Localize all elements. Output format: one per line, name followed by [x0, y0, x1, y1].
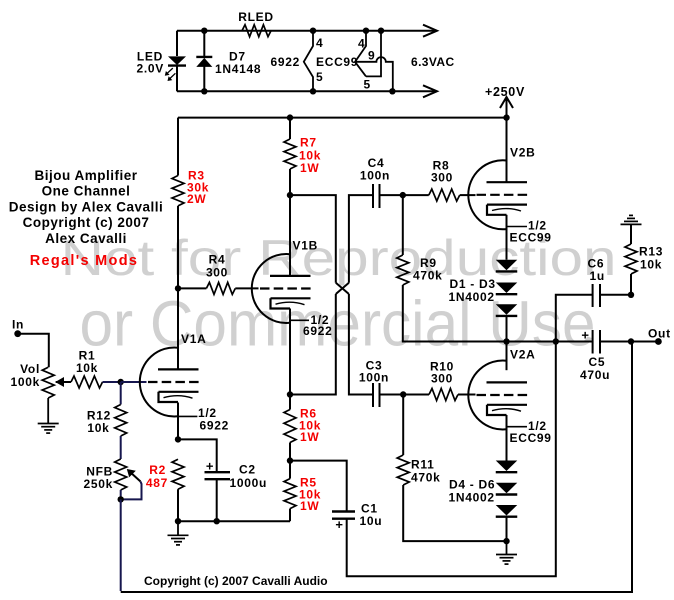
- wire heater bottom rail: [177, 90, 436, 92]
- diode D6: [496, 505, 518, 516]
- wire cathode node to C2: [178, 439, 217, 472]
- wire to Out terminal: [631, 341, 658, 343]
- junction C6/R13 node: [628, 292, 634, 298]
- svg-text:470u: 470u: [580, 368, 610, 382]
- Vol wiper arrow: [56, 381, 71, 383]
- wire R3 top lead: [177, 118, 179, 176]
- LED emission arrows: [167, 68, 173, 73]
- junction 6922 heater bottom: [310, 88, 316, 94]
- wire node A to R4: [178, 287, 206, 289]
- diode D4: [496, 461, 518, 472]
- svg-text:+: +: [335, 517, 343, 532]
- wire R2 bottom lead: [177, 489, 179, 521]
- wire V2B anode lead: [506, 118, 508, 183]
- wire R8 to V2B grid: [460, 194, 476, 196]
- wire R8 left lead: [403, 194, 429, 196]
- resistor R1: [71, 376, 103, 388]
- svg-text:1N4148: 1N4148: [215, 62, 261, 76]
- wire R11 bottom to D6 node: [403, 485, 506, 541]
- ground at output stage: [496, 554, 517, 556]
- junction C3/R10/R11 node: [400, 391, 406, 397]
- power +250V arrow: [500, 97, 513, 108]
- pointer V1A label: [178, 415, 197, 417]
- wire R6 top lead: [289, 395, 291, 410]
- wire C4 to R8 node: [380, 194, 403, 196]
- wire NFB pot bottom lead: [120, 490, 122, 499]
- svg-text:300: 300: [206, 266, 228, 280]
- heater ECC99 U-bottom and pin5 side: [366, 31, 381, 77]
- wire cathode ground bus: [178, 520, 290, 522]
- wire grid node to V1A: [121, 381, 147, 383]
- svg-text:ECC99: ECC99: [510, 431, 552, 445]
- junction ECC99 pin9 bottom: [389, 88, 395, 94]
- svg-text:6922: 6922: [303, 324, 333, 338]
- svg-text:C5: C5: [589, 355, 606, 369]
- svg-text:RLED: RLED: [238, 10, 273, 24]
- wire R4 to V1B grid: [235, 287, 258, 289]
- diode D7: [196, 56, 212, 58]
- svg-text:100k: 100k: [11, 375, 41, 389]
- svg-text:1u: 1u: [590, 269, 605, 283]
- junction D7 top: [201, 28, 207, 34]
- junction output node at D3: [503, 338, 509, 344]
- NFB wiper arrow: [130, 472, 141, 482]
- svg-text:ECC99: ECC99: [316, 55, 358, 69]
- wire cross diagonal B: [336, 283, 349, 294]
- svg-text:V1A: V1A: [181, 332, 206, 346]
- ground at V1A cathode network: [168, 534, 189, 536]
- wire NFB feedback bottom run: [121, 342, 632, 593]
- junction grid node V1A: [118, 379, 124, 385]
- wire R11 top lead: [402, 395, 404, 456]
- triode V2A: [468, 360, 506, 429]
- wire R7 bottom lead: [289, 169, 291, 195]
- svg-text:D1 - D3: D1 - D3: [450, 277, 496, 291]
- resistor R10: [429, 389, 458, 401]
- wire D7 bottom lead: [203, 66, 205, 91]
- junction ground node at D6: [503, 538, 509, 544]
- resistor R7: [284, 139, 296, 169]
- wire V1B anode to cross (top left): [290, 195, 336, 283]
- wire output node rail: [507, 341, 593, 343]
- wire V1B anode lead: [289, 195, 291, 276]
- svg-text:Copyright (c) 2007 Cavalli Aud: Copyright (c) 2007 Cavalli Audio: [144, 574, 328, 588]
- wire B+ rail: [178, 117, 507, 119]
- wire D3 to output node: [506, 316, 508, 342]
- svg-text:Regal's Mods: Regal's Mods: [30, 253, 138, 269]
- node Out terminal: [655, 338, 662, 345]
- wire D6 ground stub: [506, 541, 508, 554]
- junction C5/Out node: [628, 338, 634, 344]
- svg-text:10k: 10k: [640, 258, 662, 272]
- wire C5 right lead: [600, 341, 631, 343]
- capacitor C4: [372, 184, 374, 208]
- svg-text:R11: R11: [411, 458, 434, 472]
- junction ECC99 pin5 top: [378, 28, 384, 34]
- wire R3 bottom to node A: [177, 206, 179, 289]
- svg-text:1N4002: 1N4002: [449, 491, 495, 505]
- node In terminal: [14, 330, 21, 337]
- junction R7 top: [287, 114, 293, 120]
- wire In to Vol pot: [18, 334, 49, 368]
- junction output rail / C6 branch: [553, 338, 559, 344]
- svg-text:1W: 1W: [300, 430, 319, 444]
- svg-text:Alex Cavalli: Alex Cavalli: [45, 231, 127, 246]
- svg-text:100n: 100n: [360, 169, 390, 183]
- wire V1A cathode lead: [177, 403, 179, 440]
- svg-text:R2: R2: [149, 463, 166, 477]
- wire heater top rail: [177, 30, 436, 32]
- wire R1 to grid node: [103, 381, 121, 383]
- svg-text:300: 300: [431, 171, 453, 185]
- junction B+ at V2B anode: [503, 114, 509, 120]
- diode D3: [496, 304, 518, 315]
- svg-text:ECC99: ECC99: [510, 231, 552, 245]
- svg-text:10u: 10u: [360, 514, 383, 528]
- wire C3 to R10 node: [380, 394, 404, 396]
- svg-text:6922: 6922: [271, 55, 301, 69]
- svg-text:One Channel: One Channel: [42, 184, 131, 199]
- resistor R9: [397, 255, 409, 285]
- svg-text:1W: 1W: [300, 161, 319, 175]
- svg-text:6.3VAC: 6.3VAC: [411, 55, 455, 69]
- resistor R12: [115, 405, 127, 437]
- svg-text:5: 5: [364, 78, 371, 92]
- svg-text:Copyright (c) 2007: Copyright (c) 2007: [23, 215, 150, 230]
- resistor R8: [429, 189, 460, 201]
- potentiometer NFB: [115, 459, 127, 490]
- wire cross B down to V1B cathode node: [290, 294, 336, 395]
- pointer V2A label: [507, 426, 528, 428]
- pointer V2B label: [507, 226, 528, 228]
- potentiometer Vol: [42, 367, 54, 398]
- svg-text:R4: R4: [209, 253, 226, 267]
- junction D7 bottom: [201, 88, 207, 94]
- wire C6 right lead: [600, 294, 631, 296]
- wire C4 branch (top right): [349, 195, 372, 283]
- svg-text:2.0V: 2.0V: [137, 62, 165, 76]
- wire R13 bottom lead: [630, 274, 632, 295]
- svg-text:487: 487: [146, 476, 168, 490]
- svg-text:300: 300: [431, 372, 453, 386]
- svg-text:4: 4: [316, 36, 323, 50]
- junction V1A cathode node: [175, 436, 181, 442]
- svg-text:C2: C2: [239, 463, 256, 477]
- diode D5: [496, 483, 518, 494]
- pointer V1B label: [290, 319, 309, 321]
- heater top rail arrow: [423, 25, 437, 37]
- svg-text:V2A: V2A: [510, 348, 535, 362]
- heater bottom rail arrow: [423, 85, 437, 97]
- junction 6922 heater top: [310, 28, 316, 34]
- wire cross A down to C3: [349, 294, 372, 395]
- resistor R4: [206, 282, 235, 294]
- svg-text:R7: R7: [300, 136, 317, 150]
- ground at Vol: [38, 423, 59, 425]
- diode D2: [496, 283, 518, 294]
- svg-text:10k: 10k: [76, 361, 98, 375]
- svg-text:5: 5: [316, 70, 323, 84]
- wire D6 to ground node: [506, 517, 508, 541]
- svg-text:V1B: V1B: [293, 239, 318, 253]
- svg-text:10k: 10k: [87, 421, 109, 435]
- wire R12 to NFB pot: [120, 436, 122, 459]
- triode V2B: [468, 160, 506, 229]
- wire R6/R5 node leads: [289, 443, 291, 479]
- heater 6922 element: [304, 31, 313, 92]
- capacitor C5: [592, 330, 594, 354]
- wire V2B cathode lead: [506, 215, 508, 260]
- junction V1B cathode node: [287, 391, 293, 397]
- wire R5 bottom lead: [289, 509, 291, 522]
- svg-text:470k: 470k: [411, 471, 441, 485]
- resistor R5: [284, 479, 296, 509]
- wire D7 top lead: [203, 31, 205, 57]
- wire LED branch top: [176, 31, 178, 56]
- junction ECC99 pin4 top: [363, 28, 369, 34]
- wire C2 bottom lead: [216, 479, 218, 521]
- wire NFB feedback down: [120, 499, 122, 591]
- svg-text:Design by Alex Cavalli: Design by Alex Cavalli: [9, 199, 164, 214]
- junction node A (V1A anode / R3 / R4): [175, 285, 181, 291]
- triode V1B: [252, 254, 290, 323]
- svg-text:1W: 1W: [300, 499, 319, 513]
- junction C4/R8/R9 node: [400, 192, 406, 198]
- svg-text:1000u: 1000u: [230, 476, 268, 490]
- wire R13 top lead: [630, 224, 632, 244]
- resistor R11: [397, 455, 409, 485]
- junction ground bus at R2: [175, 518, 181, 524]
- wire R10 left lead: [403, 394, 429, 396]
- wire ECC99 pin9 to bottom rail with hop: [355, 57, 393, 91]
- svg-text:4: 4: [358, 37, 365, 51]
- capacitor C6: [592, 284, 594, 307]
- junction ground bus at C2: [214, 518, 220, 524]
- junction R6/R5 node: [287, 457, 293, 463]
- heater ECC99 element pin4 side: [355, 31, 366, 77]
- svg-text:2W: 2W: [187, 192, 206, 206]
- wire C6 left branch: [556, 295, 593, 342]
- capacitor C3: [372, 383, 374, 407]
- junction V1B anode node: [287, 192, 293, 198]
- wire R6/R5 node to C1: [290, 461, 347, 512]
- wire C1 bottom to output-node branch: [347, 342, 556, 577]
- svg-text:470k: 470k: [413, 269, 443, 283]
- svg-text:In: In: [12, 318, 24, 332]
- svg-text:Bijou Amplifier: Bijou Amplifier: [34, 168, 137, 183]
- wire Vol ground stub: [47, 398, 49, 424]
- wire R9 bottom to output node: [403, 285, 507, 342]
- svg-text:250k: 250k: [84, 477, 114, 491]
- wire V1A anode lead: [177, 288, 179, 370]
- ground above R13 (inverted): [621, 223, 642, 225]
- wire R10 to V2A grid: [458, 394, 476, 396]
- junction NFB bottom node: [118, 496, 124, 502]
- resistor R2: [172, 459, 184, 489]
- svg-text:R13: R13: [639, 245, 663, 259]
- wire R12 top lead: [120, 382, 122, 405]
- svg-text:D4 - D6: D4 - D6: [449, 478, 495, 492]
- svg-text:9: 9: [368, 49, 375, 63]
- svg-text:6922: 6922: [200, 419, 230, 433]
- svg-text:100n: 100n: [359, 371, 389, 385]
- resistor R6: [284, 410, 296, 443]
- capacitor C2: [205, 471, 231, 473]
- svg-text:1N4002: 1N4002: [449, 290, 495, 304]
- svg-text:+: +: [581, 328, 589, 343]
- diode D1: [496, 260, 518, 271]
- wire R9 top lead: [402, 195, 404, 255]
- resistor R13: [625, 244, 637, 274]
- wire cross diagonal A: [336, 283, 349, 294]
- wire NFB wiper to bottom: [121, 482, 142, 500]
- wire R2/C2 ground stub: [177, 521, 179, 535]
- resistor RLED: [242, 25, 271, 37]
- wire R7 top lead: [289, 118, 291, 139]
- resistor R3: [172, 176, 184, 206]
- wire V2A anode lead: [506, 342, 508, 371]
- triode V1A: [140, 348, 178, 417]
- wire V1B cathode lead: [289, 309, 291, 395]
- svg-text:+250V: +250V: [485, 85, 525, 99]
- capacitor C1: [332, 510, 355, 512]
- wire LED branch bottom: [176, 66, 178, 92]
- svg-text:Out: Out: [648, 327, 671, 341]
- svg-text:Vol: Vol: [20, 362, 40, 376]
- wire V2A cathode lead: [506, 415, 508, 461]
- svg-text:V2B: V2B: [510, 146, 535, 160]
- LED D_LED: [168, 56, 186, 65]
